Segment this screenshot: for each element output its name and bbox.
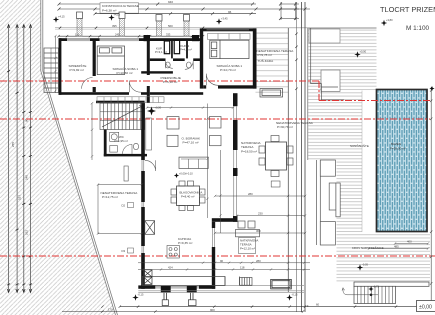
living armchair 2 [167, 135, 178, 146]
door arc wc [123, 144, 133, 154]
bathroom shower 2 [174, 40, 179, 53]
se chair [271, 181, 280, 187]
ss2 top wall [203, 28, 257, 31]
southeast wall [212, 222, 215, 289]
west wall vertical dimension line [54, 35, 56, 93]
kitchen corner unit with X [143, 270, 152, 285]
svg-text:P=9,82 m²: P=9,82 m² [70, 68, 84, 72]
svg-text:90: 90 [220, 259, 224, 263]
svg-text:SUNČALIŠTE: SUNČALIŠTE [350, 143, 369, 148]
dim numbers SE terrace [248, 192, 263, 233]
west exterior wall [59, 38, 62, 95]
left dimension tiny numbers [11, 118, 29, 235]
svg-text:527: 527 [18, 195, 22, 200]
svg-text:+3,80: +3,80 [386, 18, 393, 22]
bed bedroom 2 [210, 40, 249, 58]
star +4,15 right [216, 17, 228, 25]
svg-text:BAZEN: BAZEN [391, 142, 401, 146]
pool [377, 90, 428, 232]
star deck south [357, 263, 369, 271]
svg-text:TLOCRT PRIZEMLJA: TLOCRT PRIZEMLJA [380, 5, 435, 14]
svg-text:60: 60 [316, 302, 320, 306]
svg-text:P=4,5 m²: P=4,5 m² [180, 48, 192, 52]
svg-text:255: 255 [11, 142, 15, 147]
svg-text:P=5,10 m²: P=5,10 m² [163, 80, 177, 84]
svg-text:280: 280 [256, 259, 261, 263]
label kuhinja [178, 237, 192, 245]
dim lines south of building [138, 262, 310, 271]
bathroom divider wall [171, 41, 173, 58]
deck top border [308, 27, 377, 29]
door arc spremiste [82, 78, 93, 89]
svg-text:395: 395 [112, 24, 117, 28]
living armchair 4 [210, 136, 222, 146]
D door marks west [122, 203, 134, 254]
svg-text:D2: D2 [122, 204, 126, 208]
exterior west staircase [44, 48, 59, 93]
kitchen island [167, 246, 179, 259]
deck edge line next to pool [361, 91, 363, 233]
vertical dim left of stairs [91, 102, 93, 160]
svg-text:940: 940 [168, 0, 173, 4]
star pool right [429, 86, 434, 91]
bottom dim numbers [108, 302, 320, 311]
top dimension line 2 [58, 8, 311, 11]
svg-text:+0,00/+0,10: +0,00/+0,10 [179, 172, 193, 176]
svg-text:300: 300 [256, 229, 261, 233]
pergola walkway white strip [306, 160, 337, 305]
svg-text:+0,20: +0,20 [155, 106, 162, 110]
svg-text:230: 230 [258, 212, 263, 216]
top wall west segment (spremiste + ss1) [59, 38, 151, 41]
pier footing 2 [188, 300, 196, 306]
deck west border [307, 28, 309, 307]
svg-text:245: 245 [115, 32, 120, 36]
pergola post 3 [156, 15, 162, 37]
star +4,15 left [53, 15, 65, 23]
ss2 wardrobe band [208, 34, 251, 40]
svg-text:TUŠ-KADA: TUŠ-KADA [258, 58, 275, 63]
top dimension numbers [100, 0, 232, 14]
svg-text:-0,15: -0,15 [138, 293, 144, 297]
bed bedroom 1 [97, 46, 124, 75]
door arc ss1 [129, 81, 141, 93]
left dimension line 2 [16, 25, 18, 292]
vertical dim living [206, 104, 221, 234]
red axis line 3 [0, 255, 435, 257]
dim line above stairs [146, 106, 234, 108]
label kupaonica 2 [180, 44, 192, 52]
pergola post 4 [184, 15, 190, 37]
natkrivena terasa label box [239, 238, 259, 254]
roof overhang eave line 2 [55, 29, 203, 31]
living elevation star [174, 172, 193, 178]
south terrace edge lines [138, 286, 304, 293]
top dimension line 1 [58, 3, 257, 6]
roof overhang eave line [55, 27, 308, 29]
svg-text:900: 900 [210, 308, 215, 312]
svg-text:240: 240 [25, 175, 29, 180]
wc washer [110, 132, 119, 141]
south glass sliding door [155, 286, 199, 288]
pergola structure box bottom [320, 222, 335, 245]
property boundary vertical double line [41, 0, 118, 315]
pergola structure box middle right [336, 183, 340, 217]
svg-text:333: 333 [166, 32, 171, 36]
pool label BAZEN [390, 142, 406, 151]
star stairs [368, 284, 379, 291]
svg-text:KROV NADSTREŠNICE: KROV NADSTREŠNICE [352, 245, 384, 250]
svg-text:P=9,35 m²: P=9,35 m² [178, 241, 192, 245]
star deck [354, 50, 366, 58]
svg-text:P=28,00 m²: P=28,00 m² [390, 147, 406, 151]
right pool dims [368, 242, 429, 249]
svg-text:D3: D3 [122, 249, 126, 253]
pergola structure box top [320, 160, 335, 176]
pergola post 2 [119, 12, 125, 36]
svg-text:P=8,40 m²: P=8,40 m² [181, 195, 194, 199]
svg-text:P=3,1 m²: P=3,1 m² [155, 50, 167, 54]
site hatch strip (neighbour land) [0, 0, 116, 315]
southeast wall glazing [213, 228, 215, 247]
svg-text:P=18,50 m²: P=18,50 m² [241, 149, 257, 153]
svg-text:+4,15: +4,15 [114, 13, 121, 17]
svg-text:P=12,10 m²: P=12,10 m² [240, 247, 255, 251]
left dimension tick marks [7, 70, 32, 285]
eave numbers [112, 24, 173, 28]
svg-text:P=10,50 m²: P=10,50 m² [117, 71, 133, 75]
wooden deck field beside pool [308, 91, 362, 233]
dim ticks on 296 line [295, 33, 297, 90]
red axis line 1 (stepped) [0, 81, 430, 101]
deck west edge step detail [311, 28, 344, 100]
label nenatkrivena terasa W [101, 191, 139, 199]
label kupaonica [155, 47, 167, 55]
NE terrace edge line [256, 32, 289, 34]
window north ss2 [207, 29, 250, 31]
svg-text:P=12,75 m²: P=12,75 m² [102, 195, 118, 199]
eave ticks [59, 27, 204, 29]
wall-top dimension row [57, 35, 204, 37]
svg-text:P=47,10 m²: P=47,10 m² [183, 141, 199, 145]
bathrooms bottom wall [150, 58, 203, 61]
label blagovaonica [180, 191, 203, 199]
svg-text:M 1:100: M 1:100 [406, 25, 430, 32]
star title area [381, 18, 393, 26]
dims on SE terrace [214, 195, 306, 234]
main west wall [141, 103, 145, 289]
left dimension line 3 [23, 25, 25, 292]
label spavaca soba 1 [113, 66, 139, 75]
living tv bench [146, 118, 152, 150]
living armchair 3 [210, 117, 222, 129]
svg-text:-0,15: -0,15 [292, 293, 298, 297]
label predsoblje [161, 76, 181, 84]
pergola structure box middle [329, 183, 336, 210]
door arc bath2 [185, 61, 193, 69]
svg-text:-0,75: -0,75 [373, 284, 379, 288]
wc room walls [104, 130, 147, 157]
top dimension line 3 [94, 12, 257, 15]
svg-text:P=6,38 m²: P=6,38 m² [102, 8, 116, 12]
right long vertical line A (terrace east edge) [287, 28, 289, 292]
bottom-right outdoor stairs [342, 282, 429, 304]
label spavaca soba 2 [217, 63, 243, 72]
ss2 south wall [203, 85, 256, 88]
kitchen counter [142, 277, 239, 286]
svg-text:400: 400 [407, 240, 412, 244]
closet wall below bath1 [141, 71, 173, 73]
NE terrace deck boards [256, 33, 289, 97]
right vertical dim line [430, 87, 432, 307]
right long vertical double line D [304, 2, 306, 312]
fridge [145, 221, 155, 235]
bath2/bath3 divider [186, 41, 188, 58]
svg-text:-0,05: -0,05 [362, 263, 368, 267]
svg-text:+3,45: +3,45 [221, 17, 228, 21]
svg-text:+0,00: +0,00 [360, 50, 367, 54]
west wall glazing lines [142, 160, 144, 253]
outdoor shower NE terrace [260, 89, 283, 98]
deck notch white rectangle top-left [309, 29, 340, 43]
main east wall [233, 93, 238, 222]
right long vertical line B [296, 2, 298, 312]
se terrace coffee table [236, 221, 260, 237]
wc toilet [133, 143, 138, 149]
svg-text:P=30,78 m²: P=30,78 m² [277, 125, 293, 129]
interior staircase [100, 103, 145, 129]
svg-text:96: 96 [228, 10, 232, 14]
svg-text:560: 560 [168, 24, 173, 28]
top-right dimension cluster [279, 2, 299, 20]
ss1/corridor divider wall [147, 41, 150, 103]
ss2/bath divider wall [200, 28, 203, 88]
label nenatkrivena terasa E [276, 121, 314, 129]
wooden deck lower field [308, 232, 430, 283]
label o boravak [182, 137, 202, 145]
label spremiste [69, 63, 87, 72]
red axis line 2 [0, 118, 430, 120]
outdoor bench south [271, 279, 292, 289]
svg-text:P=10,70 m²: P=10,70 m² [220, 68, 236, 72]
east wall glazing lines [234, 106, 237, 216]
bathrooms top wall [150, 38, 203, 41]
deck planter white square [321, 70, 340, 91]
wooden deck upper field [308, 28, 377, 91]
door arc ss2 [206, 74, 218, 86]
door arc bath1 [166, 61, 173, 68]
spremiste/ss1 divider wall [93, 41, 96, 92]
step wall southeast [212, 218, 238, 222]
left dimension line 4 [30, 25, 32, 292]
pergola structure column lines [317, 160, 321, 245]
svg-text:262: 262 [25, 230, 29, 235]
corridor south wall over stairs [96, 101, 145, 104]
left dimension arrowheads bottom [7, 289, 32, 293]
left dimension arrowheads top [7, 25, 32, 29]
south piers [161, 286, 171, 293]
boiler closet M [124, 166, 128, 181]
label nenatkrivena terasa NE [257, 49, 295, 63]
dim numbers south [168, 259, 261, 270]
bedroom band bottom wall [59, 92, 204, 95]
living armchair 1 [167, 117, 179, 129]
svg-text:118: 118 [240, 266, 245, 270]
wc label [115, 135, 128, 143]
outdoor dining table east [259, 136, 293, 177]
wc sink [110, 146, 118, 153]
pier at bath top right [192, 35, 199, 41]
svg-text:485: 485 [394, 245, 399, 249]
label natkrivena terasa E [241, 141, 261, 153]
ss2 east wall [253, 28, 257, 88]
dining table [171, 181, 205, 211]
left dimension line 1 [8, 25, 10, 292]
pier footing 1 [162, 300, 168, 306]
bathroom toilets [165, 62, 170, 68]
north star living [147, 106, 162, 116]
dim line west terrace [97, 183, 143, 235]
right long vertical double line C [301, 2, 303, 312]
star bottom east [286, 293, 298, 301]
KONSTRUKCIJA TERASE label box [100, 3, 139, 13]
svg-text:P=9,78 m²: P=9,78 m² [258, 53, 272, 57]
kitchen stove [240, 278, 252, 286]
svg-text:±0,00: ±0,00 [419, 305, 432, 311]
svg-text:424: 424 [168, 266, 173, 270]
star +4,15 mid [108, 13, 120, 21]
elevation box ±0,00 [417, 301, 435, 312]
south wall [138, 285, 215, 288]
svg-text:P=1,95 m²: P=1,95 m² [115, 139, 128, 143]
svg-text:170: 170 [108, 307, 113, 311]
window north spremiste [67, 39, 90, 41]
door arc entry [145, 160, 156, 171]
living sofa [179, 157, 208, 168]
pier footing stems [164, 293, 193, 300]
star bottom west [132, 293, 144, 301]
pier at bath top left [144, 35, 151, 41]
window north ss1 [100, 39, 140, 41]
corridor closet row [97, 97, 164, 103]
svg-text:+4,15: +4,15 [58, 15, 65, 19]
bathroom shower 1 [164, 41, 169, 54]
svg-text:KONSTRUKCIJA TERASE: KONSTRUKCIJA TERASE [102, 4, 139, 8]
bottom dimension line 1 [62, 305, 432, 312]
pergola post 1 [77, 12, 83, 36]
svg-text:280: 280 [248, 192, 253, 196]
